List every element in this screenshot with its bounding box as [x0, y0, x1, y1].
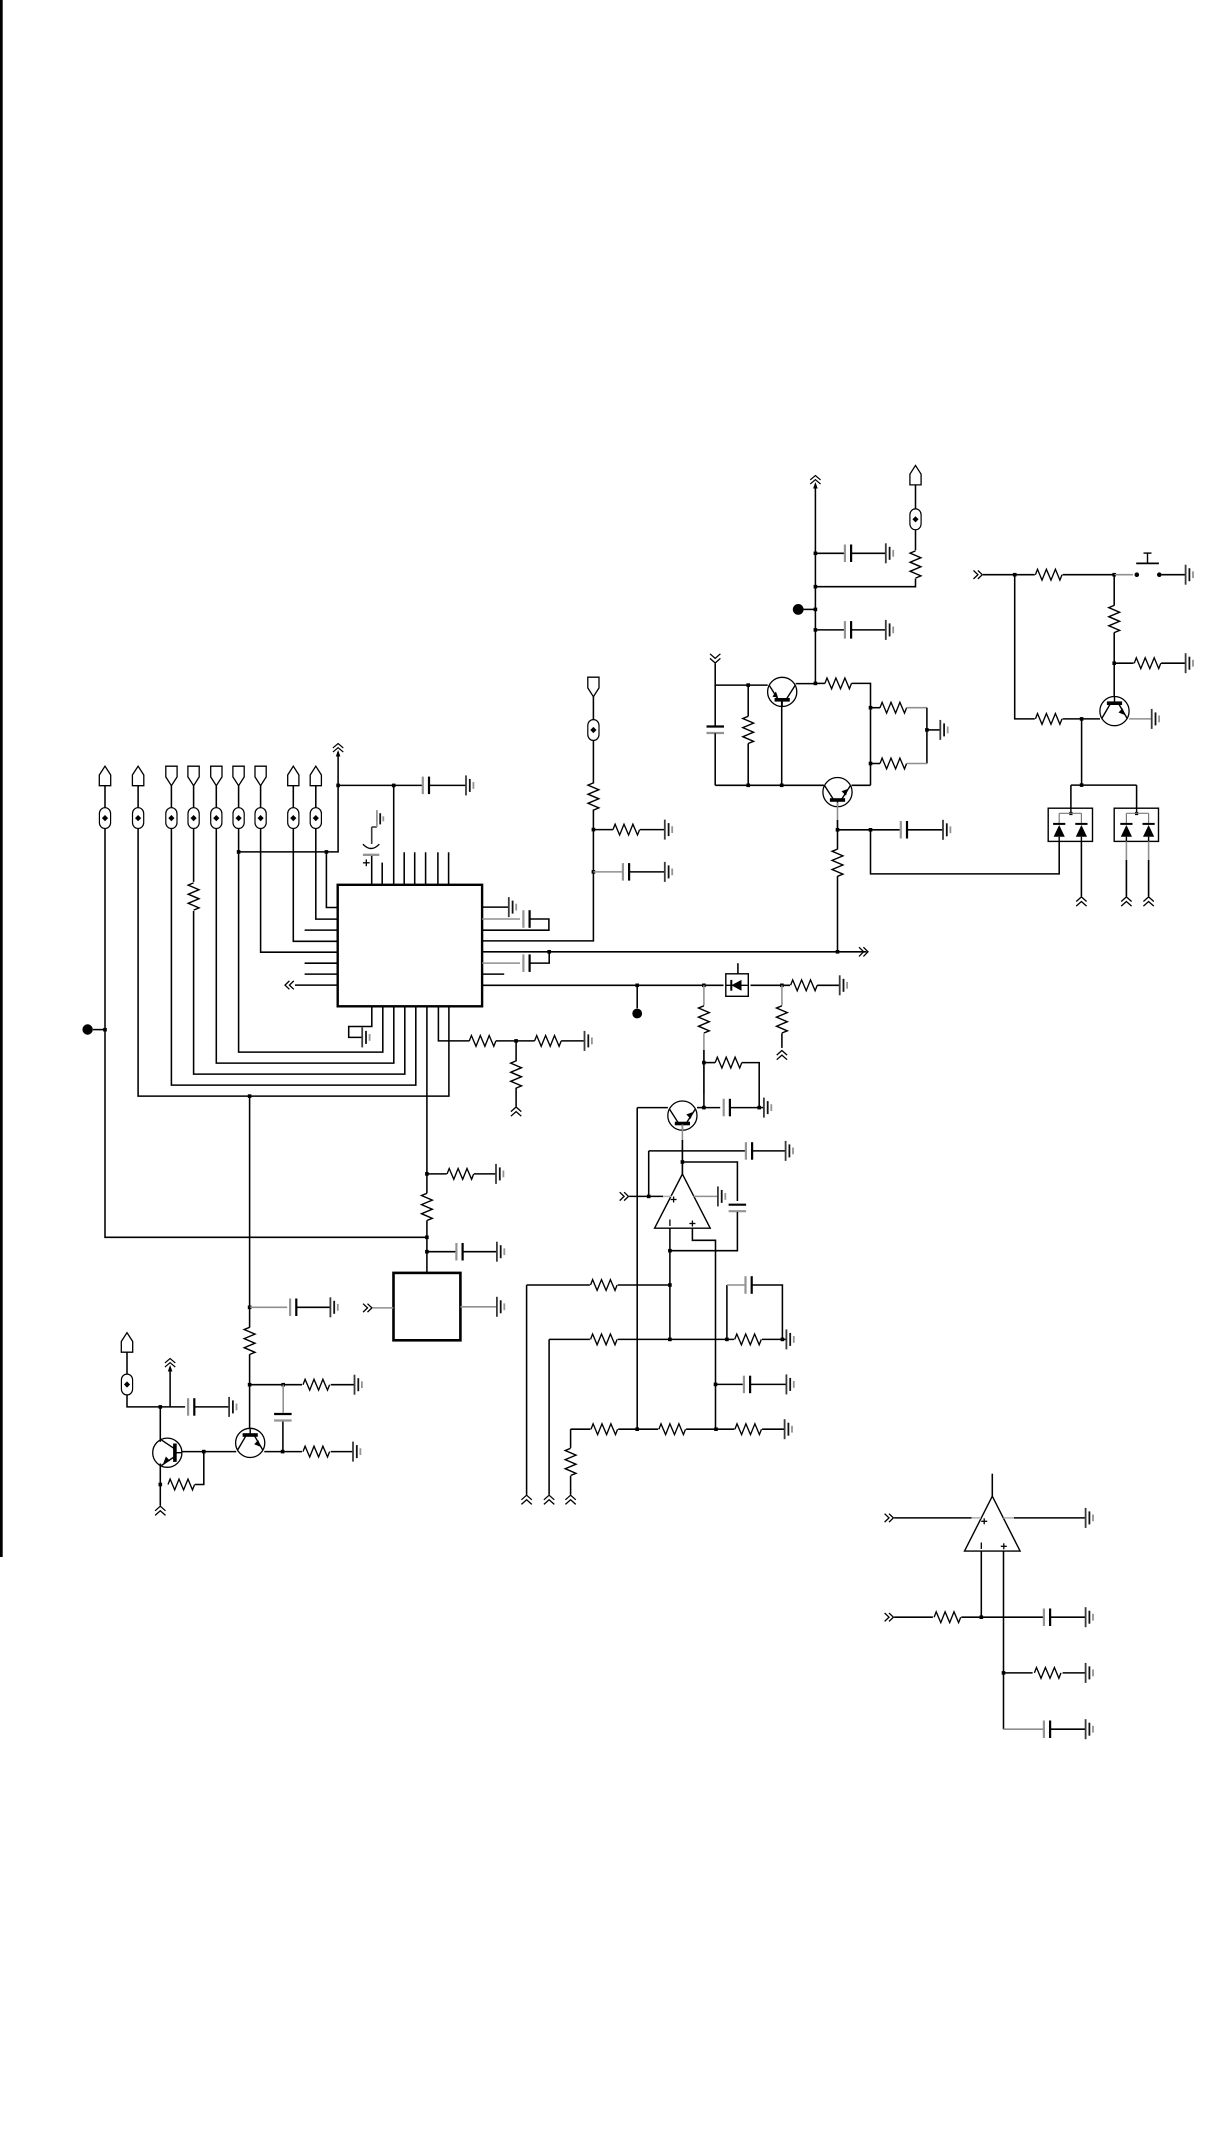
off-page arrow left — [285, 981, 294, 989]
wire fb loop2 — [670, 1212, 738, 1251]
off-page arrow up — [1121, 897, 1131, 906]
wire C7 top lead — [282, 1385, 284, 1413]
resistor R10 — [168, 1479, 195, 1490]
resistor R20 — [1109, 605, 1120, 632]
wire row1429 drop — [570, 1429, 572, 1448]
resistor R17 — [743, 716, 754, 743]
ferrite bead FB4 — [188, 808, 199, 829]
wire bridge feed r — [1136, 785, 1138, 808]
resistor R22 — [1035, 714, 1062, 725]
wire P3 tail — [171, 829, 415, 1086]
wire P5 tail — [216, 829, 393, 1064]
wire T4 right — [697, 1107, 704, 1109]
ground — [786, 1329, 793, 1349]
wire J2 to ferrite — [592, 696, 594, 720]
wire C12 top — [714, 685, 716, 726]
wire U4 inv lead — [980, 1551, 982, 1617]
wire R18 top — [837, 830, 839, 850]
capacitor C3 — [523, 910, 529, 928]
resistor R5 — [447, 1169, 474, 1180]
resistor R24 — [699, 1006, 710, 1033]
resistor R35 — [1034, 1668, 1061, 1679]
wire R17 bottom — [747, 744, 749, 786]
resistor R9 — [303, 1446, 330, 1457]
wire bridge feed l — [1070, 785, 1072, 808]
wire U4b lead — [894, 1616, 933, 1618]
wire IC1 stub pin — [381, 863, 383, 885]
ground — [1086, 1663, 1093, 1683]
off-page arrow up — [1076, 897, 1086, 906]
capacitor C13 — [901, 821, 907, 839]
resistor R2 — [469, 1036, 496, 1047]
capacitor C2 (polarized) — [363, 844, 379, 866]
ground — [940, 720, 947, 740]
node junction — [103, 1028, 107, 1032]
wire U3 +in edge — [663, 1195, 672, 1197]
wire R8 to ground — [331, 1384, 354, 1386]
connector pin J2 — [588, 677, 599, 697]
resistor R29 — [735, 1334, 762, 1345]
wire row1285 l — [527, 1284, 590, 1286]
wire long net A — [482, 951, 866, 953]
transistor Q1 — [153, 1438, 182, 1467]
wire R23 to ground — [817, 984, 839, 986]
resistor R14 — [825, 678, 852, 689]
wire P8 tail — [293, 829, 337, 942]
off-page arrow up — [544, 1495, 554, 1504]
wire R7 to Q2 — [249, 1354, 251, 1428]
resistor R23 — [791, 980, 818, 991]
off-page arrow up — [1143, 897, 1153, 906]
wire U3 right gnd — [694, 1195, 718, 1197]
node junction — [1112, 573, 1116, 577]
power VCC2 arrow — [810, 476, 820, 489]
wire pin to C4 — [482, 962, 520, 964]
test point TP2 — [793, 604, 804, 615]
wire node to C19 — [981, 1616, 1043, 1618]
resistor R12 — [613, 824, 640, 835]
capacitor C17 — [744, 1376, 750, 1394]
wire TP3 stub — [636, 985, 638, 1008]
wire Q1 emitter — [159, 1464, 161, 1506]
off-page arrow down — [710, 654, 720, 663]
U3 V+ mark — [671, 1197, 677, 1203]
IC U1 — [338, 885, 482, 1007]
off-page arrow up — [521, 1495, 531, 1504]
node junction — [635, 1427, 639, 1431]
wire C4 up to net A — [530, 952, 549, 963]
connector pin J3 — [910, 465, 921, 485]
wire crystal loop top — [482, 918, 520, 920]
wire R3 to ground — [561, 1040, 584, 1042]
node junction — [814, 682, 818, 686]
node junction — [681, 1160, 685, 1164]
wire VCC1 drop — [337, 752, 339, 785]
node junction — [869, 762, 873, 766]
capacitor C11 — [845, 621, 851, 639]
wire C8 to ground — [195, 1406, 229, 1408]
U3 minus input mark — [669, 1220, 671, 1227]
wire C13 to ground — [907, 829, 942, 831]
node junction — [425, 1236, 429, 1240]
ground — [1086, 1719, 1093, 1739]
wire IC1 stub left a — [305, 929, 338, 931]
wire to C20 — [1004, 1728, 1044, 1730]
resistor R19 — [1035, 569, 1062, 580]
wire to C17 — [716, 1383, 743, 1385]
wire Q6 emitter — [681, 1125, 683, 1175]
ground — [585, 1031, 592, 1051]
node junction — [325, 850, 329, 854]
off-page arrow in U4a — [885, 1514, 894, 1522]
wire bus drop — [249, 1096, 251, 1307]
wire row1285 r — [618, 1284, 670, 1286]
wire input drop — [1015, 575, 1035, 719]
node junction — [592, 870, 596, 874]
wire row1339 m — [618, 1338, 735, 1340]
wire gnd stub — [759, 1107, 763, 1109]
wire P10 to ferrite — [126, 1352, 128, 1374]
wire T4 left drop — [636, 1108, 638, 1430]
connector pin P9 — [310, 766, 321, 786]
wire C18 loop l — [726, 1285, 728, 1339]
wire crystal loop — [482, 919, 549, 930]
wire D1 lead B — [1080, 841, 1082, 896]
capacitor C19 — [1044, 1609, 1050, 1627]
node junction — [547, 950, 551, 954]
node junction — [1080, 717, 1084, 721]
wire R21 to ground — [1161, 662, 1185, 664]
ground — [330, 1297, 337, 1317]
node junction — [814, 585, 818, 589]
connector pin P6 — [233, 766, 244, 786]
wire D2 lead A2 — [1125, 860, 1127, 896]
ground — [496, 1164, 503, 1184]
connector pin P10 — [121, 1333, 132, 1353]
wire J3 to ferrite — [915, 485, 917, 509]
wire P7 tail — [261, 829, 338, 953]
capacitor C16 — [729, 1205, 747, 1212]
wire U3 inv lead — [669, 1228, 671, 1339]
capacitor C18 — [746, 1276, 752, 1294]
capacitor C10 — [845, 545, 851, 563]
off-page arrow in U3 — [620, 1192, 629, 1200]
off-page arrow into U2 — [363, 1304, 372, 1312]
op-amp U3 — [655, 1174, 711, 1228]
wire U2 to ground — [460, 1306, 496, 1308]
wire VCC2 rail — [814, 484, 816, 683]
wire Q4 base drop2 — [837, 820, 839, 830]
ferrite bead FB5 — [211, 808, 222, 829]
wire R12 to ground — [640, 829, 664, 831]
node junction — [668, 1249, 672, 1253]
wire D2 lead B2 — [1148, 860, 1150, 896]
capacitor C14 — [724, 1099, 730, 1117]
U4 minus input mark — [980, 1543, 982, 1550]
wire R19 to node — [1063, 574, 1115, 576]
resistor R7 — [244, 1327, 255, 1354]
wire R20 bottom — [1113, 632, 1115, 696]
wire C2 to IC pin — [371, 856, 373, 885]
ferrite bead FB7 — [255, 808, 266, 829]
wire IC1 pin F — [426, 1006, 428, 1174]
off-page arrow in — [974, 571, 983, 579]
wire R6 lead up — [426, 1174, 428, 1193]
wire row1339 r — [762, 1338, 786, 1340]
wire R16 lead r — [907, 763, 927, 765]
op-amp U4 — [965, 1496, 1021, 1551]
ground — [1186, 565, 1193, 585]
wire C5 to ground — [463, 1251, 497, 1253]
wire VCC1 rail — [338, 784, 394, 786]
wire arrow to U2 — [373, 1307, 394, 1309]
wire IC1 arrow net — [295, 984, 338, 986]
wire emitter row — [715, 784, 824, 786]
ground — [372, 810, 384, 844]
node junction — [1080, 783, 1084, 787]
ground — [764, 1098, 771, 1118]
wire D3 stub up — [737, 963, 739, 974]
wire R19 lead — [1015, 574, 1035, 576]
wire to switch — [1114, 574, 1133, 576]
node junction — [514, 1039, 518, 1043]
ground — [1152, 709, 1159, 729]
wire pin P4 to ferrite — [193, 786, 195, 808]
wire U4 out stub — [991, 1474, 993, 1497]
ferrite bead FB1 — [99, 808, 110, 829]
wire to C1 — [394, 784, 423, 786]
wire P10 tail — [127, 1395, 160, 1407]
capacitor C8 — [188, 1398, 194, 1416]
wire IC1 pin to J2 chain — [482, 810, 593, 941]
wire R13 to rail — [815, 579, 915, 587]
wire Q2 emitter row — [264, 1451, 302, 1453]
node junction — [668, 1338, 672, 1342]
wire R34 to node — [961, 1616, 981, 1618]
wire to bridge — [871, 830, 1060, 874]
off-page arrow in U4b — [885, 1613, 894, 1621]
wire IC1 top pin — [437, 852, 439, 885]
node junction — [425, 1250, 429, 1254]
wire bridge feed — [1071, 784, 1137, 786]
wire R20 top — [1113, 575, 1115, 606]
node junction — [702, 984, 706, 988]
ground — [886, 543, 893, 563]
node junction — [237, 850, 241, 854]
wire IC1 pin G — [438, 1006, 469, 1041]
resistor R11 — [588, 783, 599, 810]
node junction — [746, 683, 750, 687]
wire R7 lead up — [249, 1307, 251, 1327]
ground — [718, 1186, 725, 1206]
wire R6 to node — [426, 1221, 428, 1273]
wire IC1 top pin — [414, 852, 416, 885]
node junction — [392, 784, 396, 788]
wire pin P2 to ferrite — [137, 786, 139, 808]
ferrite bead FB10 — [121, 1374, 132, 1395]
wire IC1 top pin — [403, 852, 405, 885]
capacitor C4 — [523, 954, 529, 972]
resistor R34 — [934, 1612, 961, 1623]
node junction — [281, 1450, 285, 1454]
wire pin P1 to ferrite — [104, 786, 106, 808]
node junction — [635, 984, 639, 988]
wire VCC3 row — [160, 1406, 185, 1408]
transistor Q2 — [236, 1428, 265, 1457]
connector pin P1 — [99, 766, 110, 786]
off-page arrow up — [777, 1051, 787, 1060]
ground — [1086, 1508, 1093, 1528]
ground — [886, 620, 893, 640]
capacitor C20 — [1044, 1721, 1050, 1739]
node junction — [1112, 661, 1116, 665]
wire long net B — [482, 984, 723, 986]
wire Q6 emitter2 — [681, 1140, 683, 1174]
scan edge bar — [0, 0, 3, 1557]
wire IC1 top pin — [448, 852, 450, 885]
wire arrow drop — [715, 664, 768, 686]
wire R24 bottom — [703, 1033, 705, 1094]
wire R35 lead — [1004, 1672, 1033, 1674]
wire VCC1 to IC pin — [393, 785, 395, 884]
wire VCC1 branch down — [239, 785, 339, 852]
wire P2 tail — [138, 829, 449, 1097]
resistor R1 — [188, 883, 199, 910]
wire R12 lead — [593, 829, 613, 831]
wire C20 to ground — [1050, 1728, 1085, 1730]
diode pair D2 — [1114, 808, 1158, 841]
wire node drop — [1081, 719, 1083, 785]
ferrite bead FB6 — [233, 808, 244, 829]
resistor R16 — [880, 758, 907, 769]
node junction — [814, 552, 818, 556]
wire R22 to node — [1063, 718, 1100, 720]
transistor Q6 — [668, 1101, 697, 1130]
wire U3 nin lead — [692, 1228, 715, 1429]
off-page arrow up — [155, 1506, 165, 1515]
wire Q1 collector — [159, 1407, 161, 1442]
wire IC1 stub left c — [305, 973, 338, 975]
wire U4 right gnd — [1014, 1517, 1085, 1519]
node junction — [159, 1483, 163, 1487]
connector pin P7 — [255, 766, 266, 786]
wire pin P7 to ferrite — [260, 786, 262, 808]
test point TP3 — [632, 1009, 642, 1019]
node junction — [869, 706, 873, 710]
wire D2 lead B — [1148, 841, 1150, 896]
ground — [466, 775, 473, 795]
ground — [497, 1297, 504, 1317]
capacitor C15 — [746, 1142, 752, 1160]
wire pin P6 to ferrite — [238, 786, 240, 808]
wire node to IC pin — [326, 852, 337, 908]
resistor R18 — [832, 849, 843, 876]
resistor R4 — [511, 1061, 522, 1088]
wire corner drop — [926, 708, 928, 764]
wire R35 to ground — [1063, 1672, 1086, 1674]
wire row1429 m2 — [686, 1428, 734, 1430]
test point TP1 — [82, 1024, 92, 1034]
wire Q1 base row — [182, 1451, 236, 1453]
node junction — [836, 950, 840, 954]
capacitor C5 — [456, 1243, 462, 1261]
wire to C9 — [593, 871, 622, 873]
wire row1429 r — [762, 1428, 784, 1430]
wire Q5 emitter gnd — [1129, 718, 1151, 720]
node junction — [1013, 573, 1017, 577]
node junction — [725, 1338, 729, 1342]
wire R4 to arrow — [515, 1088, 517, 1107]
node junction — [248, 1306, 252, 1310]
off-page arrow right — [859, 947, 868, 956]
resistor R25 — [715, 1057, 742, 1068]
node junction — [702, 1061, 706, 1065]
wire C15 row — [649, 1150, 745, 1152]
resistor R31 — [659, 1424, 686, 1435]
wire base row — [838, 829, 900, 831]
transistor Q3 — [768, 677, 797, 706]
node junction — [668, 1283, 672, 1287]
wire pin P8 to ferrite — [292, 786, 294, 808]
wire TP1 stub — [93, 1029, 105, 1031]
power VCC1 arrow — [333, 744, 343, 757]
wire R26 bottom — [781, 1033, 783, 1048]
node junction — [757, 1106, 761, 1110]
resistor R21 — [1134, 658, 1161, 669]
wire T4 left — [637, 1107, 668, 1109]
node junction — [780, 784, 784, 788]
wire C18 loop top — [727, 1284, 745, 1286]
wire C7 bottom lead — [282, 1422, 284, 1452]
wire R33 to arrow — [570, 1476, 572, 1495]
connector pin P2 — [132, 766, 143, 786]
wire node to R4 — [515, 1041, 517, 1061]
wire to C14 — [704, 1107, 720, 1109]
wire R25 lead l — [704, 1062, 715, 1064]
ferrite bead FB9 — [310, 808, 321, 829]
wire C18 loop r — [752, 1285, 783, 1339]
node junction — [425, 1172, 429, 1176]
node junction — [814, 628, 818, 632]
node junction — [980, 1615, 984, 1619]
node junction — [248, 1094, 252, 1098]
wire node to C5 — [427, 1251, 456, 1253]
ground — [353, 1442, 360, 1462]
wire VCC3 drop — [169, 1367, 171, 1407]
wire to C11 — [815, 629, 844, 631]
node junction — [714, 1383, 718, 1387]
wire P1 tail — [105, 829, 427, 1238]
node junction — [592, 828, 596, 832]
wire J2 tail — [592, 740, 594, 783]
transistor Q5 — [1100, 697, 1129, 726]
node junction — [702, 1106, 706, 1110]
capacitor C12 — [707, 727, 725, 734]
ground — [665, 862, 672, 882]
node junction — [336, 784, 340, 788]
wire R14 lead l — [815, 682, 825, 684]
ferrite bead FB12 — [910, 509, 921, 530]
wire row1285 drop — [526, 1285, 528, 1495]
wire R3 lead — [516, 1040, 535, 1042]
wire U4 +in — [894, 1517, 972, 1519]
ground — [785, 1419, 792, 1439]
wire row1429 m1 — [618, 1428, 658, 1430]
wire R18 bottom — [837, 876, 839, 952]
wire R9 to ground — [331, 1451, 353, 1453]
wire C14 to node — [730, 1107, 759, 1109]
wire Q3 base drop — [781, 702, 783, 786]
